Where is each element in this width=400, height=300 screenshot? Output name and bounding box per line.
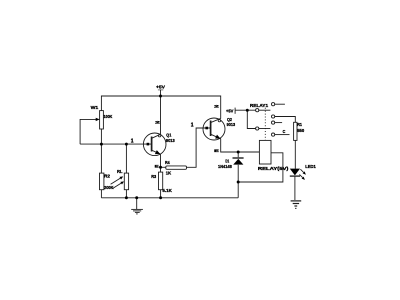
svg-text:1: 1 <box>191 123 194 129</box>
svg-text:D1: D1 <box>225 158 229 163</box>
svg-text:200K: 200K <box>104 185 114 190</box>
svg-text:E: E <box>214 149 219 153</box>
svg-text:E: E <box>155 165 159 169</box>
svg-text:2: 2 <box>155 120 160 124</box>
svg-text:R1: R1 <box>297 122 302 127</box>
svg-text:+5V: +5V <box>226 109 234 114</box>
svg-text:2: 2 <box>214 105 219 109</box>
svg-text:9013: 9013 <box>227 122 236 127</box>
svg-text:+5V: +5V <box>156 85 166 90</box>
svg-text:1K: 1K <box>166 171 172 176</box>
svg-text:LED1: LED1 <box>305 164 316 169</box>
svg-text:W1: W1 <box>91 105 99 110</box>
svg-text:RL: RL <box>117 169 123 174</box>
svg-text:RELAY(5V): RELAY(5V) <box>258 166 289 171</box>
svg-text:550: 550 <box>297 128 304 133</box>
svg-text:C: C <box>283 129 286 134</box>
svg-text:1: 1 <box>131 138 134 144</box>
svg-text:5.1K: 5.1K <box>162 188 172 193</box>
svg-text:R4: R4 <box>165 160 170 165</box>
svg-text:RELAY1: RELAY1 <box>250 103 269 108</box>
svg-text:9013: 9013 <box>166 138 175 143</box>
svg-text:100K: 100K <box>104 114 113 119</box>
svg-text:R3: R3 <box>151 174 156 179</box>
svg-text:R2: R2 <box>104 173 110 178</box>
svg-text:1N4148: 1N4148 <box>218 164 232 169</box>
